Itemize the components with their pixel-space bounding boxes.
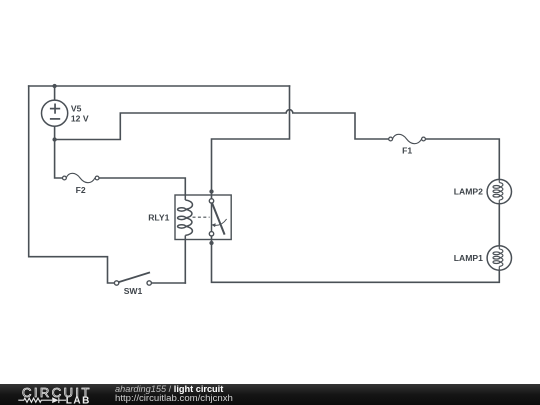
svg-text:V5: V5 [71, 104, 82, 114]
svg-text:12 V: 12 V [71, 113, 89, 123]
svg-text:http://circuitlab.com/chjcnxh: http://circuitlab.com/chjcnxh [115, 393, 233, 404]
svg-text:LAMP1: LAMP1 [454, 253, 483, 263]
svg-text:F2: F2 [76, 185, 86, 195]
svg-text:RLY1: RLY1 [148, 212, 169, 222]
svg-text:LAB: LAB [66, 395, 91, 405]
svg-text:LAMP2: LAMP2 [454, 187, 483, 197]
svg-text:SW1: SW1 [124, 286, 143, 296]
svg-text:F1: F1 [402, 145, 412, 155]
